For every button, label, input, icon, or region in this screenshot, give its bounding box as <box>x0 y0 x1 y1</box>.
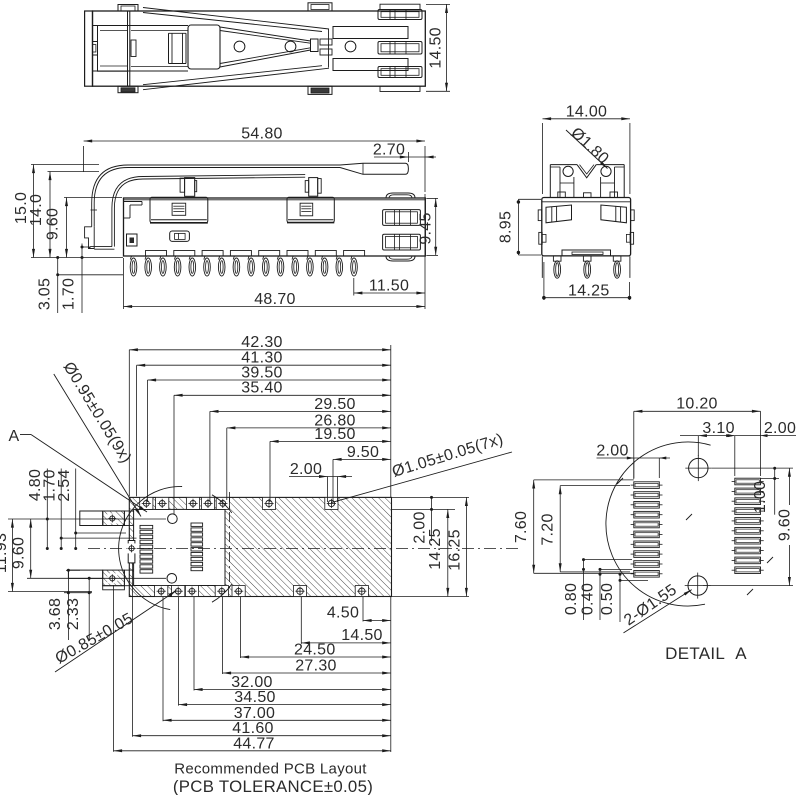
dim 1.00 (detail) <box>761 478 780 480</box>
dim 4.50 <box>362 597 364 622</box>
svg-text:0.40: 0.40 <box>580 583 597 615</box>
dim 16.25 <box>392 596 470 598</box>
leader dia 0.85 <box>55 591 177 673</box>
svg-text:29.50: 29.50 <box>314 396 356 413</box>
dim 9.60 (side) <box>64 197 122 199</box>
dim 14.50 <box>300 597 302 644</box>
top view: slider left lug <box>93 42 98 56</box>
leader dia 1.05 (7x) <box>331 452 512 503</box>
top view: section divider lines <box>127 11 129 86</box>
front view: bottom pedestal <box>562 250 611 256</box>
side view: bail pivot 2 <box>309 178 318 197</box>
svg-text:2.00: 2.00 <box>764 420 796 437</box>
top view: pivot posts <box>168 33 170 63</box>
svg-text:14.50: 14.50 <box>428 27 445 69</box>
front view: actuator feet <box>558 192 566 198</box>
dim 9.45 <box>426 197 438 199</box>
dim dia 1.80 leader <box>566 130 608 169</box>
top view: right upper plate <box>333 27 408 39</box>
side view: bail pivot 1 <box>185 178 195 197</box>
side view: stamped emboss <box>170 231 190 241</box>
dim 1.70 (pcb left) <box>60 469 62 551</box>
svg-text:1.00: 1.00 <box>752 481 769 513</box>
detail A: hole top <box>689 458 708 477</box>
svg-text:A: A <box>9 428 20 445</box>
dim 48.70 <box>123 258 125 309</box>
svg-text:2.70: 2.70 <box>373 142 405 159</box>
front view: lower side tabs <box>539 232 542 244</box>
side view: right finger stack upper <box>383 210 421 226</box>
top view: upper band line <box>93 25 189 27</box>
pcb: right reference extension line (top) <box>390 345 392 497</box>
detail A: left pad column <box>634 482 660 489</box>
detail A: hole bottom <box>688 576 707 595</box>
top view: mid-edge lug <box>131 40 136 57</box>
top view: right finger row top <box>378 10 422 20</box>
front view: body <box>542 198 631 256</box>
svg-text:Recommended PCB Layout: Recommended PCB Layout <box>174 761 367 778</box>
dim 8.95 <box>518 198 541 200</box>
front view: V notch <box>577 165 596 178</box>
top view: right vertical seam <box>328 29 330 68</box>
svg-text:3.10: 3.10 <box>702 420 734 437</box>
dim 7.60 <box>534 479 634 481</box>
pcb: top row through-hole pads <box>140 497 153 509</box>
top view: lower band line <box>93 70 189 72</box>
dim 42.30 <box>128 350 130 497</box>
svg-text:48.70: 48.70 <box>254 291 296 308</box>
svg-text:7.20: 7.20 <box>540 513 557 545</box>
dim 9.60 (detail) <box>711 467 793 469</box>
svg-text:14.25: 14.25 <box>568 282 610 299</box>
svg-text:14.0: 14.0 <box>28 194 45 226</box>
svg-text:2.33: 2.33 <box>65 598 82 630</box>
dim 10.20 <box>633 411 635 479</box>
side view: bail wire upper run <box>128 164 340 166</box>
dim 41.30 <box>136 365 138 496</box>
side view: bail upper bend <box>92 165 128 227</box>
top view: middle bottom tab <box>308 86 332 94</box>
side view: top right bump <box>386 193 415 198</box>
side view: latch hole <box>127 234 138 246</box>
svg-text:9.60: 9.60 <box>777 509 794 541</box>
svg-text:44.77: 44.77 <box>233 735 275 752</box>
svg-text:1.70: 1.70 <box>61 278 78 310</box>
svg-text:35.40: 35.40 <box>241 380 283 397</box>
top view: hole circle 3 <box>345 41 356 52</box>
svg-text:54.80: 54.80 <box>241 126 283 143</box>
top view: latch arm taper <box>220 27 311 41</box>
front view: right wing <box>601 205 627 223</box>
side view: retention clip 2 <box>287 197 334 222</box>
dim 9.60 (pcb left) <box>27 577 166 579</box>
top view: hole circle 2 <box>285 41 296 52</box>
svg-text:14.25: 14.25 <box>427 528 444 570</box>
dim 34.50 <box>178 597 180 706</box>
top view: torsion wire top <box>143 8 329 30</box>
dim 14.25 (pcb right) <box>447 509 449 596</box>
dim 35.40 <box>173 395 175 514</box>
svg-text:3.68: 3.68 <box>47 598 64 630</box>
dim 2.00 (detail left) <box>597 457 671 459</box>
top view: latch arm end bar <box>311 39 319 52</box>
top view: middle section arm lines <box>131 30 188 32</box>
svg-text:7.60: 7.60 <box>513 511 530 543</box>
pcb: right reference extension line (bottom) <box>390 597 392 753</box>
front view: bail wire circles <box>563 166 573 176</box>
leader 2-dia 1.55 <box>624 590 692 633</box>
detail A: break ticks <box>617 478 623 484</box>
pcb: left protrusion top (hatched pad zone) <box>80 511 103 526</box>
dim 26.80 <box>226 428 228 500</box>
dim 37.00 <box>162 597 164 721</box>
dim 14.00 <box>542 123 544 194</box>
svg-text:11.93: 11.93 <box>0 533 10 573</box>
pcb: left protrusion bottom (hatched pad zone) <box>68 570 102 578</box>
dim 14.0 <box>48 171 100 173</box>
top view: torsion wire bottom <box>143 68 329 90</box>
svg-text:2.00: 2.00 <box>290 461 322 478</box>
pcb: bottom row through-hole pads <box>155 586 168 597</box>
dim 11.50 <box>353 278 355 296</box>
dim 2.00 (detail top right) <box>735 435 796 437</box>
front view: bail actuator top <box>550 164 577 166</box>
leader dia 0.95 (9x) <box>54 374 141 517</box>
svg-text:9.60: 9.60 <box>11 537 28 569</box>
dim 3.68 <box>66 569 80 571</box>
top view: left top mounting tab <box>118 5 138 12</box>
dim 41.60 <box>132 563 134 737</box>
dim 2.33 <box>88 578 90 640</box>
top view: middle top tab <box>308 3 332 11</box>
pcb: screw hole bottom (1.55) <box>167 574 177 584</box>
side view: front flange detail <box>124 201 142 203</box>
dim 2.70 <box>407 152 409 162</box>
side view: bottom right bump <box>386 256 415 261</box>
side view: cage body <box>124 198 426 256</box>
svg-text:9.45: 9.45 <box>418 212 435 244</box>
top view: slider block <box>98 26 128 72</box>
front view: side skirts <box>541 256 543 278</box>
dim 0.80 (detail) <box>584 559 633 561</box>
side view: solder tabs <box>146 251 167 257</box>
dim 32.00 <box>193 597 195 691</box>
svg-text:2.54: 2.54 <box>56 469 73 501</box>
svg-text:2.00: 2.00 <box>411 511 428 543</box>
pcb: vertical phantom line <box>229 492 231 591</box>
side view: right finger stack lower <box>383 234 421 250</box>
svg-text:4.50: 4.50 <box>327 605 359 622</box>
front view: left wing <box>546 205 572 223</box>
dim 7.20 <box>560 485 630 487</box>
svg-text:2.00: 2.00 <box>596 442 628 459</box>
svg-text:11.50: 11.50 <box>369 278 409 295</box>
dim 39.50 <box>147 380 149 502</box>
top view: right lower plate <box>333 59 408 71</box>
top view: hole circle 1 <box>234 41 245 52</box>
dim 3.10 <box>697 436 699 456</box>
dim 11.93 <box>8 518 108 520</box>
pcb: middle edge pad bar <box>128 541 135 563</box>
front view: actuator legs <box>573 177 575 198</box>
top view: coupler blocks <box>320 39 332 45</box>
dim 19.50 <box>269 441 271 502</box>
dim 14.50 (top view height) <box>426 3 450 5</box>
svg-text:16.25: 16.25 <box>447 529 464 571</box>
dim 2.00 (pcb right) <box>392 496 470 498</box>
top view: left bottom mounting tab <box>118 86 138 93</box>
pcb: detail A boundary arc <box>119 486 182 609</box>
side view: retention clip 1 <box>150 197 208 223</box>
svg-text:34.50: 34.50 <box>234 689 276 706</box>
pcb: outline <box>129 497 391 596</box>
pcb: centerline <box>88 548 521 550</box>
dim 15.0 <box>31 164 99 166</box>
dim 24.50 <box>240 597 242 658</box>
dim 0.40 (detail) <box>600 568 632 570</box>
dim 2.00 (pcb top) <box>327 477 329 503</box>
dim 44.77 <box>113 585 115 752</box>
svg-text:27.30: 27.30 <box>295 658 337 675</box>
top view: bail clasp bar (left) <box>85 11 93 86</box>
pcb: SMT pads left column <box>140 525 153 528</box>
top view: right finger row middle <box>378 42 422 55</box>
svg-text:10.20: 10.20 <box>676 396 718 413</box>
top view: right finger row bottom <box>378 67 422 78</box>
svg-text:24.50: 24.50 <box>294 642 336 659</box>
svg-text:DETAIL A: DETAIL A <box>665 644 747 663</box>
side view: bail wire lower run <box>143 175 305 177</box>
dim 2.54 <box>75 469 77 551</box>
front view: solder legs <box>553 256 561 261</box>
side view: bail hook foot <box>85 227 95 249</box>
dim 4.80 <box>46 469 48 551</box>
detail A: right pad column <box>735 478 761 485</box>
top view: cage outer body <box>93 11 426 86</box>
pcb: top copper strip (hatched) <box>129 497 391 596</box>
side view: bail handle flat end <box>340 163 408 174</box>
svg-text:0.50: 0.50 <box>599 583 616 615</box>
front view: upper side tabs <box>538 210 542 221</box>
pcb: component area outline <box>134 509 225 585</box>
dim 14.25 (front) <box>543 262 545 300</box>
detail A: boundary arc <box>606 442 711 606</box>
side view: EMI spring hooks <box>130 256 131 260</box>
svg-text:(PCB TOLERANCE±0.05): (PCB TOLERANCE±0.05) <box>173 777 373 795</box>
dim 9.50 <box>332 459 334 502</box>
pcb: left protrusion pads <box>107 514 117 524</box>
dim 29.50 <box>209 411 211 502</box>
dim 27.30 <box>222 597 224 674</box>
svg-text:14.00: 14.00 <box>566 103 608 120</box>
svg-text:14.50: 14.50 <box>341 627 383 644</box>
svg-text:9.60: 9.60 <box>45 208 62 240</box>
svg-text:9.50: 9.50 <box>347 444 379 461</box>
svg-text:8.95: 8.95 <box>498 211 515 243</box>
dim 1.70 (side) <box>82 246 91 248</box>
svg-text:19.50: 19.50 <box>314 426 356 443</box>
dim 0.50 (detail) <box>620 579 648 581</box>
top view: latch arm block <box>188 25 220 69</box>
dim 3.05 <box>58 274 123 276</box>
pcb: screw hole top (1.55) <box>168 514 178 524</box>
pcb: SMT pads right column <box>191 523 203 526</box>
side view: bail lower bend <box>112 177 143 247</box>
svg-text:3.05: 3.05 <box>37 278 54 310</box>
dim 54.80 <box>83 146 85 172</box>
svg-text:0.80: 0.80 <box>563 583 580 615</box>
